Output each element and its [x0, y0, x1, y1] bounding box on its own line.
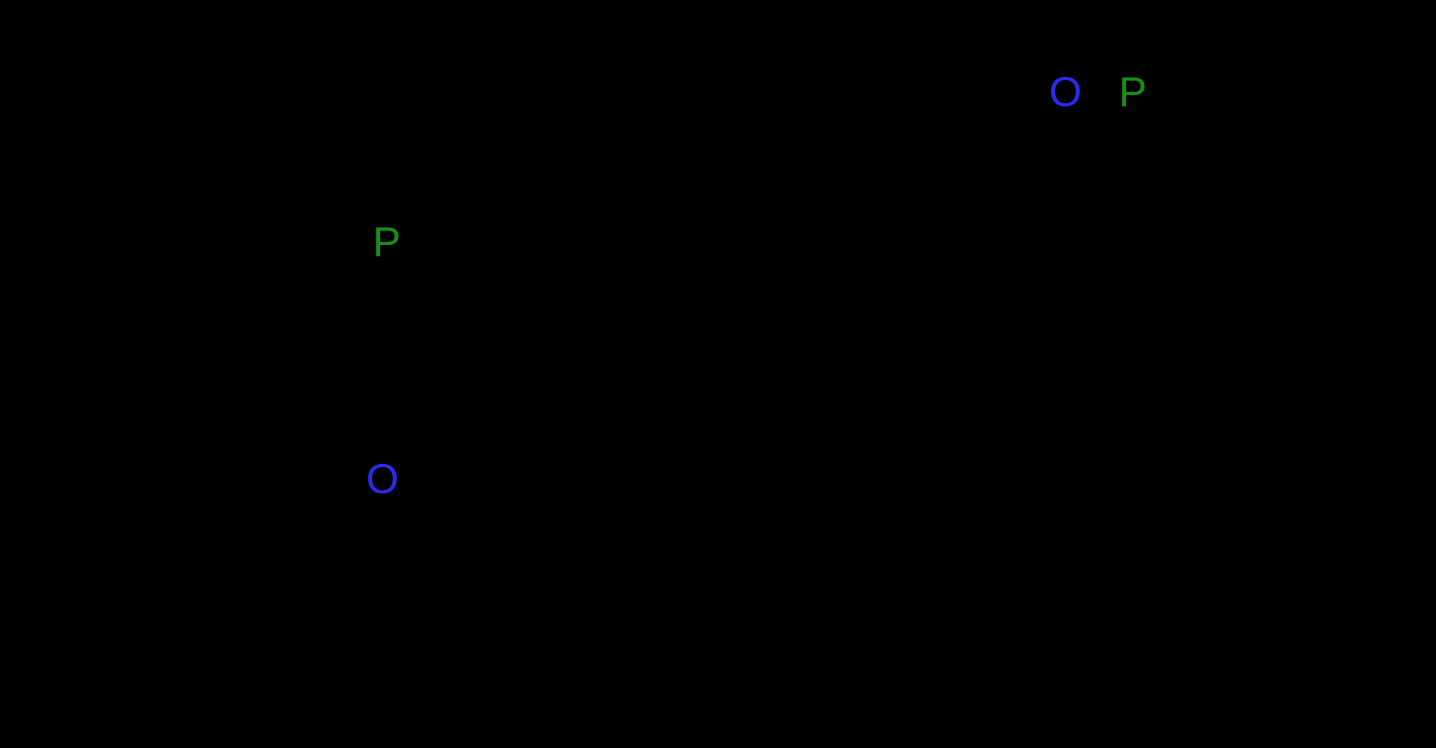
atom label P1 (phosphorus, left molecule): [373, 221, 401, 263]
atom label O1 (oxygen, left molecule): [366, 458, 399, 500]
atom label O2 (oxygen, right molecule): [1049, 71, 1082, 113]
atom label P2 (phosphorus, right molecule): [1119, 71, 1147, 113]
